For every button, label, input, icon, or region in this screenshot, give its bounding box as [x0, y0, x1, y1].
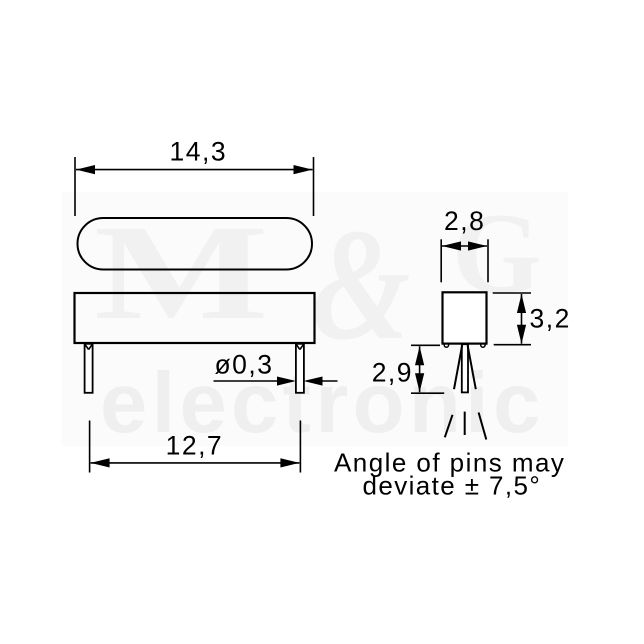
front view right pin: [296, 344, 304, 393]
dimension 2,8 extension line right: [487, 239, 489, 282]
side view middle pin: [462, 344, 468, 392]
dimension 14,3 arrowhead left: [76, 165, 95, 174]
svg-text:2,8: 2,8: [444, 206, 485, 236]
dimension 2,9 extension line top: [411, 344, 440, 346]
dimension 14,3 arrowhead right: [294, 165, 313, 174]
dimension 2,9 extension line bottom: [411, 392, 444, 394]
front view left pin: [85, 344, 93, 393]
dimension 3,2 line: [521, 294, 523, 344]
svg-text:14,3: 14,3: [170, 137, 228, 167]
side view left slanted pin: [454, 345, 462, 389]
side view right foot: [481, 344, 485, 347]
dimension 2,8 arrowhead left: [442, 241, 461, 250]
dimension 14,3 line: [76, 169, 313, 171]
svg-text:M: M: [94, 197, 269, 348]
side view left foot: [444, 344, 448, 347]
pin diameter arrow left-pointing: [304, 377, 323, 386]
watermark ampersand: [312, 196, 411, 373]
watermark letter M: [94, 197, 269, 348]
pin diameter leader line left: [214, 380, 280, 382]
svg-text:deviate ± 7,5°: deviate ± 7,5°: [363, 471, 542, 501]
side view body: [443, 292, 487, 343]
dimension 12,7 extension line left: [89, 421, 91, 473]
dimension 3,2 arrowhead down: [517, 325, 526, 344]
deviated pin tick right: [479, 413, 487, 440]
dimension 2,9 line: [419, 346, 421, 392]
dimension 14,3 extension line right: [313, 157, 315, 216]
dimension 3,2 extension line bottom: [494, 344, 531, 346]
side view right slanted pin: [468, 345, 476, 389]
svg-text:&: &: [312, 196, 411, 373]
dimension 3,2 extension line top: [493, 292, 531, 294]
dimension 12,7 line: [91, 462, 300, 464]
top view glass body (pill): [78, 218, 313, 270]
dimension 2,9 arrowhead up: [415, 346, 424, 365]
pin diameter leader line right: [321, 380, 338, 382]
dimension 12,7 arrowhead right: [280, 458, 299, 467]
pin diameter arrow right-pointing: [277, 377, 296, 386]
dimension 2,8 extension line left: [440, 239, 442, 282]
svg-text:2,9: 2,9: [372, 358, 413, 388]
dimension 2,8 arrowhead right: [468, 241, 487, 250]
svg-text:3,2: 3,2: [530, 304, 571, 334]
svg-text:12,7: 12,7: [166, 430, 224, 460]
svg-text:ø0,3: ø0,3: [215, 350, 274, 380]
dimension 12,7 arrowhead left: [91, 458, 110, 467]
deviated pin tick middle: [464, 412, 466, 435]
deviated pin tick left: [445, 415, 453, 438]
dimension 14,3 extension line left: [74, 157, 76, 216]
dimension 2,8 line: [442, 245, 487, 247]
watermark logo backdrop: [62, 192, 568, 446]
dimension 12,7 extension line right: [299, 421, 301, 473]
watermark letter G: [452, 190, 541, 317]
dimension 2,9 arrowhead down: [415, 373, 424, 392]
front view body: [75, 293, 315, 343]
dimension 3,2 arrowhead up: [517, 294, 526, 313]
